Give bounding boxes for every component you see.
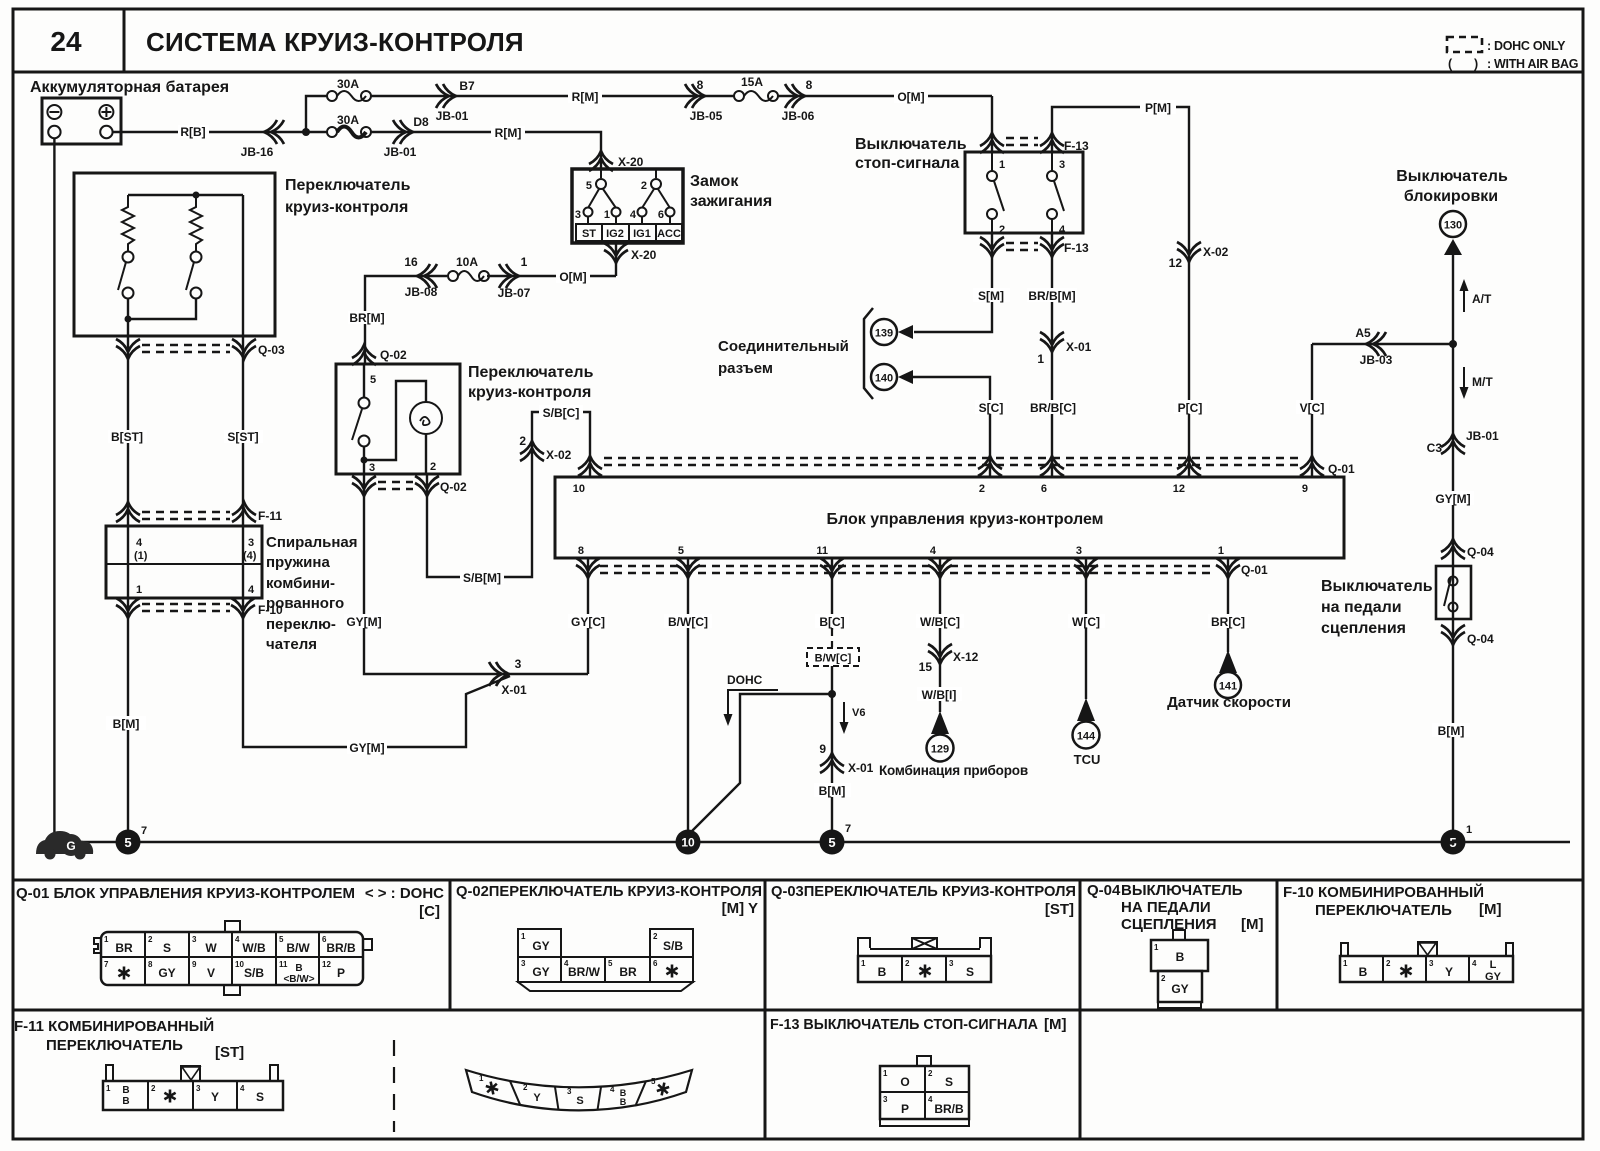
svg-text:Переключатель: Переключатель (468, 364, 594, 381)
connector X-20 top (589, 151, 613, 171)
label O[M] lower (556, 270, 590, 283)
fuse 30A lower fusible link (327, 127, 337, 137)
switch1 left contact upper (123, 252, 134, 263)
wire R[B] battery to junction (113, 131, 306, 133)
svg-text:[M]: [M] (1044, 1016, 1067, 1033)
svg-text:F-10 КОМБИНИРОВАННЫЙ: F-10 КОМБИНИРОВАННЫЙ (1283, 883, 1484, 901)
F-11 pin row (103, 1081, 283, 1110)
ignition pin 5 (600, 169, 602, 178)
wire DOHC branch to ground 10 (692, 694, 832, 831)
svg-text:1: 1 (106, 1084, 111, 1093)
table divider Q-01/Q-02 (449, 880, 452, 1010)
stalk switch lower contact (359, 436, 370, 447)
svg-text:V: V (207, 966, 215, 980)
svg-text:B: B (1176, 950, 1185, 964)
stalk switch upper contact (359, 398, 370, 409)
Q-01 top tab (225, 921, 240, 932)
label R[B] (178, 125, 209, 138)
svg-text:B/W[C]: B/W[C] (815, 653, 852, 665)
battery BAT box (42, 98, 121, 144)
ignition contact 1 (612, 208, 621, 217)
svg-text:W/B[I]: W/B[I] (922, 688, 957, 702)
svg-text:X-12: X-12 (953, 650, 979, 664)
svg-text:10A: 10A (456, 255, 478, 269)
spiral spring box of combination switch (106, 526, 262, 598)
ignition position cell IG2 (602, 224, 629, 241)
battery positive post (100, 126, 112, 138)
junction node A5 (1449, 340, 1457, 348)
svg-text:Блок управления круиз-контроле: Блок управления круиз-контролем (827, 511, 1104, 528)
svg-text:3: 3 (196, 1084, 201, 1093)
svg-text:Выключатель: Выключатель (1321, 578, 1433, 595)
svg-text:4: 4 (930, 545, 937, 557)
F-11 arc divider 2 (555, 1086, 559, 1109)
svg-text:3: 3 (1059, 159, 1065, 171)
connector F-10 drawing plate (1340, 955, 1513, 957)
svg-text:X-20: X-20 (631, 248, 657, 262)
svg-text:6: 6 (653, 959, 658, 968)
svg-text:F-11: F-11 (258, 509, 282, 523)
svg-text:1: 1 (604, 209, 610, 221)
svg-text:<B/W>: <B/W> (283, 974, 314, 985)
svg-text:B[C]: B[C] (819, 615, 844, 629)
M/T direction arrow (1463, 367, 1465, 392)
svg-text:A/T: A/T (1472, 292, 1492, 306)
svg-text:3: 3 (883, 1095, 888, 1104)
F-10 keying box triangle (1418, 942, 1437, 956)
circuit circle 144 TCU (1073, 722, 1100, 749)
svg-text:IG2: IG2 (606, 228, 624, 240)
svg-text:8: 8 (578, 545, 584, 557)
svg-text:пружина: пружина (266, 554, 330, 571)
stalk internal wiring to lamp (364, 381, 426, 460)
table divider Q-03/Q-04 and F-13/blank (1079, 880, 1082, 1139)
svg-text:8: 8 (148, 960, 153, 969)
connector Q-01 drawing body (101, 932, 363, 985)
connector Q-03 drawing top plate (858, 938, 991, 956)
svg-text:4: 4 (1059, 224, 1066, 236)
fuse 15A (734, 91, 744, 101)
svg-text:4: 4 (928, 1095, 933, 1104)
label S[C] (975, 400, 1007, 414)
svg-text:СИСТЕМА КРУИЗ-КОНТРОЛЯ: СИСТЕМА КРУИЗ-КОНТРОЛЯ (146, 27, 524, 57)
svg-text:S: S (966, 965, 974, 979)
svg-text:JB-08: JB-08 (405, 285, 438, 299)
svg-text:S: S (256, 1090, 264, 1104)
svg-text:Q-04: Q-04 (1467, 632, 1494, 646)
header separator line (13, 71, 1583, 74)
switch1 top rail (128, 194, 243, 196)
svg-text:1: 1 (1343, 959, 1348, 968)
svg-text:S[C]: S[C] (979, 401, 1004, 415)
svg-text:Q-03ПЕРЕКЛЮЧАТЕЛЬ КРУИЗ-КОНТРО: Q-03ПЕРЕКЛЮЧАТЕЛЬ КРУИЗ-КОНТРОЛЯ (771, 883, 1076, 900)
label B[M] left leg (106, 716, 146, 730)
svg-text:BR/W: BR/W (568, 965, 601, 979)
stop signal switch box (965, 152, 1083, 233)
label S[M] (973, 288, 1010, 302)
label B[M] right column (1432, 723, 1470, 737)
svg-text:сцепления: сцепления (1321, 620, 1406, 637)
svg-text:2: 2 (653, 932, 658, 941)
connector F-10 pair (116, 598, 140, 618)
svg-text:B[M]: B[M] (819, 784, 846, 798)
switch1 left blade (118, 262, 126, 290)
svg-text:GY: GY (532, 939, 549, 953)
svg-text:JB-01: JB-01 (436, 109, 469, 123)
svg-text:L: L (1490, 959, 1497, 971)
circuit circle 141 (1215, 672, 1241, 698)
svg-text:ACC: ACC (657, 228, 681, 240)
svg-text:30A: 30A (337, 77, 359, 91)
svg-text:IG1: IG1 (633, 228, 651, 240)
svg-text:BR/B: BR/B (326, 941, 356, 955)
connector X-20 bottom (604, 243, 628, 263)
svg-text:1: 1 (861, 959, 866, 968)
svg-text:S: S (945, 1075, 953, 1089)
svg-text:D8: D8 (413, 115, 429, 129)
ground 10 (676, 830, 701, 855)
svg-text:8: 8 (697, 78, 704, 92)
svg-text:4: 4 (610, 1085, 615, 1094)
svg-text:B7: B7 (459, 79, 475, 93)
connector Q-02 drawing (518, 929, 561, 957)
F-11 arc divider 3 (598, 1086, 602, 1109)
svg-text:S/B[M]: S/B[M] (463, 571, 501, 585)
svg-text:X-02: X-02 (1203, 245, 1229, 259)
ignition contact 6 (666, 208, 675, 217)
node bottom rail (125, 316, 132, 323)
svg-text:Переключатель: Переключатель (285, 177, 411, 194)
wire BR[C] ECU pin1 down (1227, 558, 1229, 652)
connector JB-16 (264, 120, 284, 144)
label BR/B[C] (1029, 400, 1077, 414)
A/T direction arrow (1463, 286, 1465, 312)
svg-text:P: P (901, 1102, 909, 1116)
svg-text:V6: V6 (852, 707, 865, 719)
svg-text:стоп-сигнала: стоп-сигнала (855, 155, 959, 172)
svg-text:3: 3 (567, 1087, 572, 1096)
svg-text:C3: C3 (1427, 441, 1443, 455)
svg-text:Q-03: Q-03 (258, 343, 285, 357)
svg-text:Q-01 БЛОК УПРАВЛЕНИЯ КРУИЗ-КОН: Q-01 БЛОК УПРАВЛЕНИЯ КРУИЗ-КОНТРОЛЕМ (16, 885, 355, 902)
svg-text:2: 2 (1161, 974, 1166, 983)
svg-text:O: O (900, 1075, 909, 1089)
stop switch pin 1 contact (991, 152, 993, 171)
svg-text:2: 2 (523, 1083, 528, 1092)
dashed DOHC wire segment (831, 630, 833, 648)
svg-text:B: B (122, 1085, 129, 1096)
svg-text:JB-01: JB-01 (1466, 429, 1499, 443)
svg-text:S: S (163, 941, 171, 955)
svg-text:9: 9 (192, 960, 197, 969)
table divider Q-02/Q-03 and F-11/F-13 (764, 880, 767, 1139)
svg-text:P[M]: P[M] (1145, 101, 1171, 115)
svg-text:15: 15 (919, 660, 933, 674)
svg-text:140: 140 (875, 373, 893, 385)
circuit circle 129 (927, 735, 954, 762)
wire S/B[M] from stalk pin2 (427, 412, 590, 577)
svg-text:переклю-: переклю- (266, 616, 336, 633)
label BR[C] (1208, 614, 1248, 628)
wire 15A to corner at stop switch (778, 95, 992, 97)
svg-text:[M]: [M] (1241, 916, 1264, 933)
V6 direction arrow (843, 702, 845, 726)
svg-text:TCU: TCU (1074, 752, 1101, 767)
Q-03 keying box (912, 938, 937, 949)
svg-text:JB-07: JB-07 (498, 286, 531, 300)
wire battery negative down to ground (53, 138, 55, 842)
svg-text:JB-01: JB-01 (384, 145, 417, 159)
svg-text:Спиральная: Спиральная (266, 534, 358, 551)
ground 5 left (116, 830, 141, 855)
svg-text:Q-01: Q-01 (1241, 563, 1268, 577)
wire B/W[C] ECU pin5 to ground 10 (687, 558, 689, 830)
svg-text:GY[M]: GY[M] (346, 615, 381, 629)
svg-text:S[M]: S[M] (978, 289, 1004, 303)
arrow into circuit 129 (931, 711, 949, 734)
wire S[C] from 140 to ECU pin2 (913, 377, 990, 477)
svg-text:7: 7 (141, 825, 147, 837)
F-11 dashed divider (393, 1040, 395, 1132)
svg-text:12: 12 (1169, 256, 1183, 270)
wire GY[M] from F-10 down right and up to X-01 (243, 598, 510, 747)
dashed variant label box B/W[C] (807, 648, 859, 666)
label S[ST] (224, 430, 263, 443)
svg-text:5: 5 (608, 959, 613, 968)
connector C3 JB-01 (1441, 434, 1465, 454)
wire ignition IG2 down (615, 243, 617, 276)
svg-text:1: 1 (136, 584, 142, 596)
svg-text:3: 3 (369, 462, 375, 474)
label R[M] upper (568, 90, 602, 103)
ground 5 center (820, 830, 845, 855)
svg-text:B/W[C]: B/W[C] (668, 615, 708, 629)
ground bus wire (80, 841, 1570, 843)
svg-text:3: 3 (248, 537, 254, 549)
svg-text:BR/B: BR/B (934, 1102, 964, 1116)
svg-text:DOHC: DOHC (727, 673, 763, 687)
label S/B[M] (460, 570, 504, 584)
label V[C] (1296, 400, 1329, 414)
svg-text:на педали: на педали (1321, 599, 1402, 616)
svg-text:BR/B[C]: BR/B[C] (1030, 401, 1076, 415)
wire W/B ECU pin4 down (939, 558, 941, 712)
ignition pin 2 (655, 169, 657, 178)
svg-text:круиз-контроля: круиз-контроля (285, 199, 408, 216)
connector Q-01 bottom row chevrons (576, 558, 600, 578)
svg-text:[M] Y: [M] Y (722, 900, 758, 917)
wire down to stop signal switch pin 1 (991, 96, 993, 152)
svg-text:S/B: S/B (244, 966, 264, 980)
label BR/B[M] (1027, 288, 1077, 302)
wire 30A fuse to JB-05 (371, 95, 734, 97)
svg-text:O[M]: O[M] (559, 270, 586, 284)
svg-text:B/W: B/W (286, 941, 310, 955)
svg-text:W/B: W/B (242, 941, 266, 955)
stop switch blades (994, 181, 1004, 211)
svg-text:S/B: S/B (663, 939, 683, 953)
svg-text:B: B (295, 963, 302, 974)
svg-text:(1): (1) (134, 550, 148, 562)
svg-text:Выключатель: Выключатель (855, 136, 967, 153)
svg-text:2: 2 (430, 461, 436, 473)
stalk switch pin 5 wire (363, 364, 365, 398)
cruise ECU box Блок управления круиз-контролем (555, 477, 1344, 558)
wire stop switch pin3 to P[M] (1052, 107, 1189, 477)
svg-text:O[M]: O[M] (897, 90, 924, 104)
svg-text:10: 10 (573, 483, 585, 495)
wire B[M] to ground 5 (831, 666, 833, 830)
switch1 bottom rail (128, 298, 196, 319)
ignition contact stubs (587, 216, 589, 224)
svg-text:BR: BR (115, 941, 133, 955)
svg-text:GY: GY (532, 965, 549, 979)
fuse 30A upper (327, 91, 337, 101)
ground 5 right (1441, 830, 1466, 855)
svg-text:5: 5 (828, 835, 835, 850)
connector F-13 bottom pair (980, 237, 1004, 257)
svg-text:2: 2 (519, 434, 526, 448)
battery positive terminal (99, 105, 113, 119)
ignition wiper blades (588, 189, 599, 208)
svg-text:GY: GY (1171, 982, 1188, 996)
connector D8 JB-01 (393, 120, 413, 144)
ignition position cell ST (576, 224, 602, 241)
svg-text:G: G (66, 839, 75, 853)
svg-text:5: 5 (124, 835, 131, 850)
svg-text:B[M]: B[M] (1438, 724, 1465, 738)
ignition position cell ACC (656, 224, 682, 241)
lock switch circle 130 (1440, 211, 1466, 237)
stop switch pin 2 contact (991, 219, 993, 233)
connector 12 X-02 (1177, 242, 1201, 262)
ignition switch Замок зажигания box (572, 169, 683, 243)
connector 9 X-01 (820, 753, 844, 773)
connector F-11 drawing plate (103, 1080, 283, 1082)
connector 2 X-02 (520, 441, 544, 461)
svg-text:F-13: F-13 (1064, 241, 1089, 255)
wire B[C] ECU pin11 down (831, 558, 833, 630)
wire W[C] ECU pin3 down (1085, 558, 1087, 699)
svg-text:2: 2 (999, 224, 1005, 236)
arrow into joint connector 139 (898, 325, 913, 339)
svg-text:7: 7 (845, 823, 851, 835)
clutch switch upper contact (1449, 577, 1458, 586)
Q-01 right ear (363, 939, 372, 950)
arrow up into 130 (1444, 239, 1462, 255)
connector F-13 drawing (917, 1056, 931, 1066)
legend DOHC ONLY dashed box (1447, 37, 1482, 52)
svg-text:129: 129 (931, 744, 949, 756)
junction node at fuse split (302, 128, 310, 136)
svg-text:3: 3 (1076, 545, 1082, 557)
wire junction up to 30A fuse branch (306, 96, 327, 132)
svg-text:X-02: X-02 (546, 448, 572, 462)
svg-text:X-01: X-01 (848, 761, 874, 775)
label B/W[C] (664, 614, 712, 628)
svg-text:B: B (122, 1096, 129, 1107)
wire lock switch column (1452, 253, 1454, 830)
svg-text:8: 8 (806, 78, 813, 92)
svg-text:2: 2 (148, 935, 153, 944)
Q-01 bottom tab (224, 985, 240, 995)
svg-text:144: 144 (1077, 731, 1096, 743)
connector F-13 top pair (980, 133, 1004, 153)
svg-text:4: 4 (136, 537, 143, 549)
stop switch pin 3 contact (1051, 152, 1053, 171)
svg-text:JB-16: JB-16 (241, 145, 274, 159)
label B[C] (815, 614, 849, 628)
Q-03 pin row (858, 956, 991, 982)
svg-text:1: 1 (479, 1074, 484, 1083)
wire B[ST] leg exits box (127, 319, 129, 526)
svg-text:141: 141 (1219, 681, 1237, 693)
svg-text:GY: GY (1485, 971, 1502, 983)
svg-text:[ST]: [ST] (215, 1044, 244, 1061)
svg-text:зажигания: зажигания (690, 193, 772, 210)
svg-text:4: 4 (630, 209, 637, 221)
svg-text:F-10: F-10 (258, 603, 283, 617)
wire BR/B[M] stop switch pin4 to ECU pin6 (1051, 233, 1053, 477)
switch1 left contact lower (123, 288, 134, 299)
svg-text:ST: ST (582, 228, 596, 240)
cruise control stalk switch box Q-02 (336, 364, 460, 474)
svg-text:1: 1 (521, 255, 528, 269)
wires through spring box (127, 526, 129, 842)
clutch pedal switch box (1436, 566, 1471, 619)
label P[M] (1140, 100, 1176, 114)
connector Q-02 bottom pair (352, 476, 376, 496)
joint connector circle 139 (871, 319, 897, 345)
svg-text:4: 4 (1472, 959, 1477, 968)
svg-text:Замок: Замок (690, 173, 739, 190)
svg-text:JB-06: JB-06 (782, 109, 815, 123)
clutch switch lower contact (1449, 603, 1458, 612)
svg-text:3: 3 (575, 209, 581, 221)
arrow into circuit 144 (1077, 698, 1095, 721)
svg-text:1: 1 (999, 159, 1005, 171)
svg-text:разъем: разъем (718, 360, 773, 377)
svg-text:X-20: X-20 (618, 155, 644, 169)
resistor R-left (122, 195, 134, 251)
resistor R-right (190, 195, 202, 251)
svg-text:BR/B[M]: BR/B[M] (1028, 289, 1075, 303)
battery negative post (48, 126, 60, 138)
stalk switch lower wire and node (363, 446, 365, 474)
label GY[M] right column (1432, 491, 1474, 505)
svg-text:5: 5 (651, 1077, 656, 1086)
svg-text:W: W (205, 941, 217, 955)
svg-text:3: 3 (515, 657, 522, 671)
svg-text:Датчик скорости: Датчик скорости (1167, 694, 1291, 711)
ignition contact 3 (584, 208, 593, 217)
svg-text:5: 5 (586, 180, 592, 192)
svg-text:1: 1 (1218, 545, 1224, 557)
svg-text:Q-02: Q-02 (380, 348, 407, 362)
svg-text:1: 1 (1466, 824, 1472, 836)
connector 1 JB-07 (499, 264, 519, 288)
label BR[M] (348, 311, 386, 324)
svg-text:5: 5 (678, 545, 684, 557)
svg-text:Q-04: Q-04 (1467, 545, 1494, 559)
svg-text:BR: BR (619, 965, 637, 979)
F-11 arc connector band (466, 1070, 692, 1110)
label W/B[I] (917, 687, 962, 701)
svg-text:блокировки: блокировки (1404, 188, 1498, 205)
ignition contact 4 (638, 208, 647, 217)
F-11 arc divider 4 (636, 1081, 646, 1105)
svg-text:B[M]: B[M] (113, 717, 140, 731)
